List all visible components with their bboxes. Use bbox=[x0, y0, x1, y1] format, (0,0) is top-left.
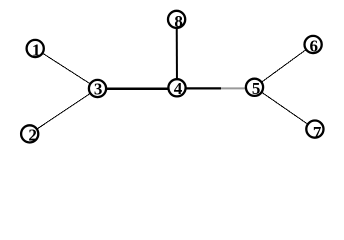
svg-text:5: 5 bbox=[252, 79, 261, 98]
svg-text:1: 1 bbox=[32, 40, 41, 59]
svg-text:2: 2 bbox=[28, 126, 37, 145]
svg-text:3: 3 bbox=[94, 79, 103, 98]
svg-text:4: 4 bbox=[174, 79, 183, 98]
svg-text:8: 8 bbox=[174, 12, 183, 31]
svg-text:7: 7 bbox=[313, 123, 322, 142]
svg-text:6: 6 bbox=[310, 37, 319, 56]
